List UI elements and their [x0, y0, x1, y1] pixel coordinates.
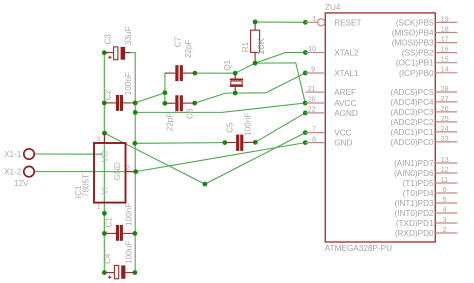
wire GND rail to C5 left — [135, 142, 225, 145]
svg-text:AREF: AREF — [334, 88, 356, 97]
svg-text:(RXD)PD0: (RXD)PD0 — [395, 229, 434, 238]
svg-text:1: 1 — [313, 16, 317, 23]
svg-text:14: 14 — [441, 67, 449, 74]
svg-text:6: 6 — [443, 187, 447, 194]
voltage regulator IC1 7805T — [74, 134, 136, 211]
wire GND rail to AVCC pin20 — [135, 103, 305, 112]
node 7805 VO junction — [102, 131, 107, 136]
wire 7805 VO diagonal to V node — [105, 133, 205, 184]
svg-text:GND: GND — [334, 139, 352, 148]
node pin22 junction — [303, 111, 308, 116]
pin 18 PB4 stub — [435, 32, 457, 34]
svg-text:10K: 10K — [256, 37, 267, 55]
pin 2 PD0 stub — [435, 232, 457, 234]
wire GND vertical rail x=135 — [134, 53, 136, 273]
node crystal bottom junction — [233, 91, 238, 96]
wire R1 top to RESET pin1 — [255, 21, 305, 23]
node GND rail AVCC branch junction — [133, 110, 138, 115]
svg-text:(AIN1)PD7: (AIN1)PD7 — [394, 159, 434, 168]
pin 21 AREF stub — [305, 91, 325, 93]
node 7805 GND junction — [133, 169, 138, 174]
wire 5V vertical rail x=104 — [103, 53, 105, 273]
svg-text:(ADC1)PC1: (ADC1)PC1 — [390, 128, 434, 137]
node C7 right junction — [193, 71, 198, 76]
svg-text:26: 26 — [441, 106, 449, 113]
node C2 left junction — [102, 101, 107, 106]
svg-text:XTAL2: XTAL2 — [334, 49, 359, 58]
wire X1-2 to GND node — [34, 171, 136, 173]
pin 28 PC5 stub — [435, 91, 457, 93]
wire V node to VCC pin7 — [205, 133, 305, 185]
capacitor C3 33uF polarized — [104, 27, 134, 60]
svg-text:27: 27 — [441, 96, 449, 103]
svg-text:(ADC2)PC2: (ADC2)PC2 — [390, 118, 434, 127]
node pin20 junction — [303, 101, 308, 106]
svg-text:3: 3 — [443, 217, 447, 224]
svg-text:11: 11 — [441, 177, 448, 184]
pin 14 PB0 stub — [435, 72, 457, 74]
node pin9 junction — [303, 71, 308, 76]
left pin numbers — [308, 16, 317, 143]
wire R1 bottom to XTAL2 pin10 — [255, 52, 305, 63]
svg-text:C7: C7 — [174, 36, 183, 47]
node pin8 junction — [303, 140, 308, 145]
IC U1 ZU4 ATMEGA328P-PU body — [325, 13, 435, 242]
svg-text:Q1: Q1 — [223, 59, 232, 70]
node C1 left junction — [102, 231, 107, 236]
connector X1-2 — [4, 166, 34, 176]
svg-text:(T0)PD4: (T0)PD4 — [403, 189, 434, 198]
svg-text:17: 17 — [441, 37, 449, 44]
svg-text:25: 25 — [441, 116, 449, 123]
svg-text:C3: C3 — [104, 34, 113, 45]
svg-text:C8: C8 — [186, 108, 195, 119]
svg-text:VO: VO — [101, 151, 110, 163]
svg-text:12V: 12V — [14, 179, 29, 188]
svg-text:2: 2 — [443, 227, 447, 234]
svg-text:19: 19 — [441, 16, 449, 23]
left pin stubs — [305, 22, 325, 142]
svg-text:21: 21 — [308, 86, 316, 93]
node C8 right junction — [192, 101, 197, 106]
svg-text:(MISO)PB4: (MISO)PB4 — [392, 29, 434, 38]
svg-text:33uF: 33uF — [124, 27, 133, 46]
pin 27 PC4 stub — [435, 101, 457, 103]
capacitor C1 100nF — [104, 203, 134, 241]
node R1 top junction — [253, 20, 258, 25]
svg-text:7805T: 7805T — [81, 174, 90, 197]
right pin stubs — [435, 22, 457, 233]
node GND rail C5 branch junction — [132, 141, 137, 146]
svg-text:15: 15 — [441, 57, 449, 64]
pin 12 PD6 stub — [435, 172, 457, 174]
pin 22 AGND stub — [305, 112, 325, 114]
svg-text:X1-1: X1-1 — [4, 150, 22, 159]
node V bottom junction — [203, 182, 208, 187]
svg-text:VI: VI — [101, 187, 110, 195]
svg-text:20: 20 — [308, 97, 316, 104]
wire X1-1 to regulator — [34, 153, 102, 155]
pin 23 PC0 stub — [435, 141, 457, 143]
pin 15 PB1 stub — [435, 62, 457, 64]
capacitor C8 22pF — [165, 95, 195, 131]
svg-text:16: 16 — [441, 47, 449, 54]
svg-text:100uF: 100uF — [125, 241, 134, 264]
svg-text:C2: C2 — [104, 89, 113, 100]
svg-text:1: 1 — [97, 204, 101, 211]
pin 19 PB5 stub — [435, 21, 457, 23]
svg-text:22pF: 22pF — [165, 113, 174, 132]
svg-text:(T1)PD5: (T1)PD5 — [403, 179, 434, 188]
wire C7/C8 left column x=165 — [164, 73, 166, 103]
svg-text:(SCK)PB5: (SCK)PB5 — [396, 18, 434, 27]
RESET inversion bubble — [318, 19, 325, 26]
pin 4 PD2 stub — [435, 212, 457, 214]
capacitor C7 22pF — [165, 36, 195, 81]
node pin1 junction — [303, 20, 308, 25]
pin 25 PC2 stub — [435, 121, 457, 123]
svg-text:X1-2: X1-2 — [4, 167, 22, 176]
wire C8 right to crystal bottom — [195, 93, 236, 103]
svg-text:2: 2 — [126, 165, 130, 172]
pin 13 PD7 stub — [435, 162, 457, 164]
pin 3 PD1 stub — [435, 222, 457, 224]
svg-text:C1: C1 — [105, 217, 114, 228]
svg-text:13: 13 — [441, 157, 449, 164]
svg-text:(ADC5)PC5: (ADC5)PC5 — [390, 88, 434, 97]
capacitor C4 100uF polarized — [104, 241, 135, 279]
svg-text:C4: C4 — [104, 253, 113, 264]
pin 10 XTAL2 stub — [305, 52, 325, 54]
svg-text:(INT1)PD3: (INT1)PD3 — [394, 199, 434, 208]
svg-text:(INT0)PD2: (INT0)PD2 — [394, 209, 434, 218]
svg-text:(ADC3)PC3: (ADC3)PC3 — [390, 108, 434, 117]
pin 20 AVCC stub — [305, 102, 325, 104]
svg-text:24: 24 — [441, 126, 449, 133]
svg-text:7: 7 — [312, 126, 316, 133]
svg-text:C5: C5 — [226, 122, 235, 133]
node 7805 VI junction — [102, 211, 107, 216]
pin 8 GND stub — [305, 142, 325, 144]
resistor R1 10K — [241, 22, 267, 63]
svg-text:18: 18 — [441, 26, 449, 33]
svg-text:(ADC4)PC4: (ADC4)PC4 — [390, 98, 434, 107]
capacitor C5 100nF — [225, 113, 256, 151]
svg-text:(TXD)PD1: (TXD)PD1 — [396, 219, 434, 228]
svg-text:4: 4 — [443, 207, 447, 214]
pin 1 RESET stub — [305, 21, 317, 23]
pin 17 PB3 stub — [435, 42, 457, 44]
svg-text:(OC1)PB1: (OC1)PB1 — [396, 59, 434, 68]
node C3 left junction — [102, 50, 107, 55]
svg-text:AGND: AGND — [334, 109, 358, 118]
pin 16 PB2 stub — [435, 52, 457, 54]
svg-text:28: 28 — [441, 86, 449, 93]
svg-text:ZU4: ZU4 — [325, 3, 341, 12]
svg-text:10: 10 — [308, 46, 316, 53]
node crystal top junction — [233, 71, 238, 76]
node C4 left junction — [102, 270, 107, 275]
svg-text:GND: GND — [113, 162, 122, 180]
wire C5 right to AGND pin22 — [255, 113, 305, 142]
svg-text:(MOSI)PB3: (MOSI)PB3 — [392, 39, 434, 48]
svg-text:100nF: 100nF — [125, 203, 134, 226]
wire R1 bottom to AVCC pin20 — [255, 63, 305, 103]
pin stub VO (3) — [104, 134, 106, 143]
svg-text:22pF: 22pF — [184, 39, 193, 58]
pin 5 PD3 stub — [435, 202, 457, 204]
node C4 right junction — [133, 270, 138, 275]
svg-text:3: 3 — [96, 136, 100, 143]
pin 7 VCC stub — [305, 132, 325, 134]
svg-text:R1: R1 — [241, 41, 250, 52]
right pin numbers — [441, 16, 449, 234]
pin 24 PC1 stub — [435, 131, 457, 133]
svg-text:RESET: RESET — [334, 18, 361, 27]
node R1 bottom junction — [253, 61, 258, 66]
svg-text:(SS)PB2: (SS)PB2 — [402, 49, 434, 58]
capacitor C2 100nF — [104, 72, 136, 111]
node pin10 junction — [303, 50, 308, 55]
svg-text:(AIN0)PD6: (AIN0)PD6 — [394, 169, 434, 178]
node C1 right junction — [133, 231, 138, 236]
node C5 right junction — [253, 140, 258, 145]
svg-text:100nF: 100nF — [244, 113, 253, 136]
svg-text:22: 22 — [308, 107, 316, 114]
svg-text:(ICP)PB0: (ICP)PB0 — [399, 69, 434, 78]
svg-text:AVCC: AVCC — [334, 99, 356, 108]
svg-text:(ADC0)PC0: (ADC0)PC0 — [390, 138, 434, 147]
node pin7 junction — [303, 130, 308, 135]
wire C3 row to GND rail — [125, 52, 135, 54]
pin 6 PD4 stub — [435, 192, 457, 194]
svg-text:23: 23 — [441, 136, 449, 143]
connector X1-1 — [4, 149, 34, 159]
svg-text:VCC: VCC — [334, 129, 351, 138]
svg-text:8: 8 — [312, 136, 316, 143]
wire crystal top to R1 bottom — [235, 63, 255, 73]
pin stub GND (2) — [126, 171, 136, 173]
wire C7 right to crystal top — [195, 72, 235, 74]
wire C2 right to C7/C8 column diagonal — [135, 93, 165, 103]
svg-text:ATMEGA328P-PU: ATMEGA328P-PU — [325, 244, 392, 253]
pin 26 PC3 stub — [435, 111, 457, 113]
crystal Q1 — [223, 59, 243, 93]
node C7/C8 column mid junction — [163, 90, 168, 95]
wire crystal bottom to XTAL1 pin9 — [235, 73, 305, 93]
node C2 right junction — [133, 101, 138, 106]
svg-text:100nF: 100nF — [124, 72, 133, 95]
pin 11 PD5 stub — [435, 182, 457, 184]
svg-text:5: 5 — [443, 197, 447, 204]
node C8 left junction — [163, 101, 168, 106]
wire 7805 GND node to GND pin8 — [136, 143, 305, 172]
svg-text:XTAL1: XTAL1 — [334, 69, 359, 78]
left pin labels — [334, 18, 361, 147]
right pin labels — [390, 18, 434, 238]
svg-text:12: 12 — [441, 167, 449, 174]
node C5 left junction — [222, 140, 227, 145]
pin 9 XTAL1 stub — [305, 72, 325, 74]
svg-text:9: 9 — [311, 67, 315, 74]
